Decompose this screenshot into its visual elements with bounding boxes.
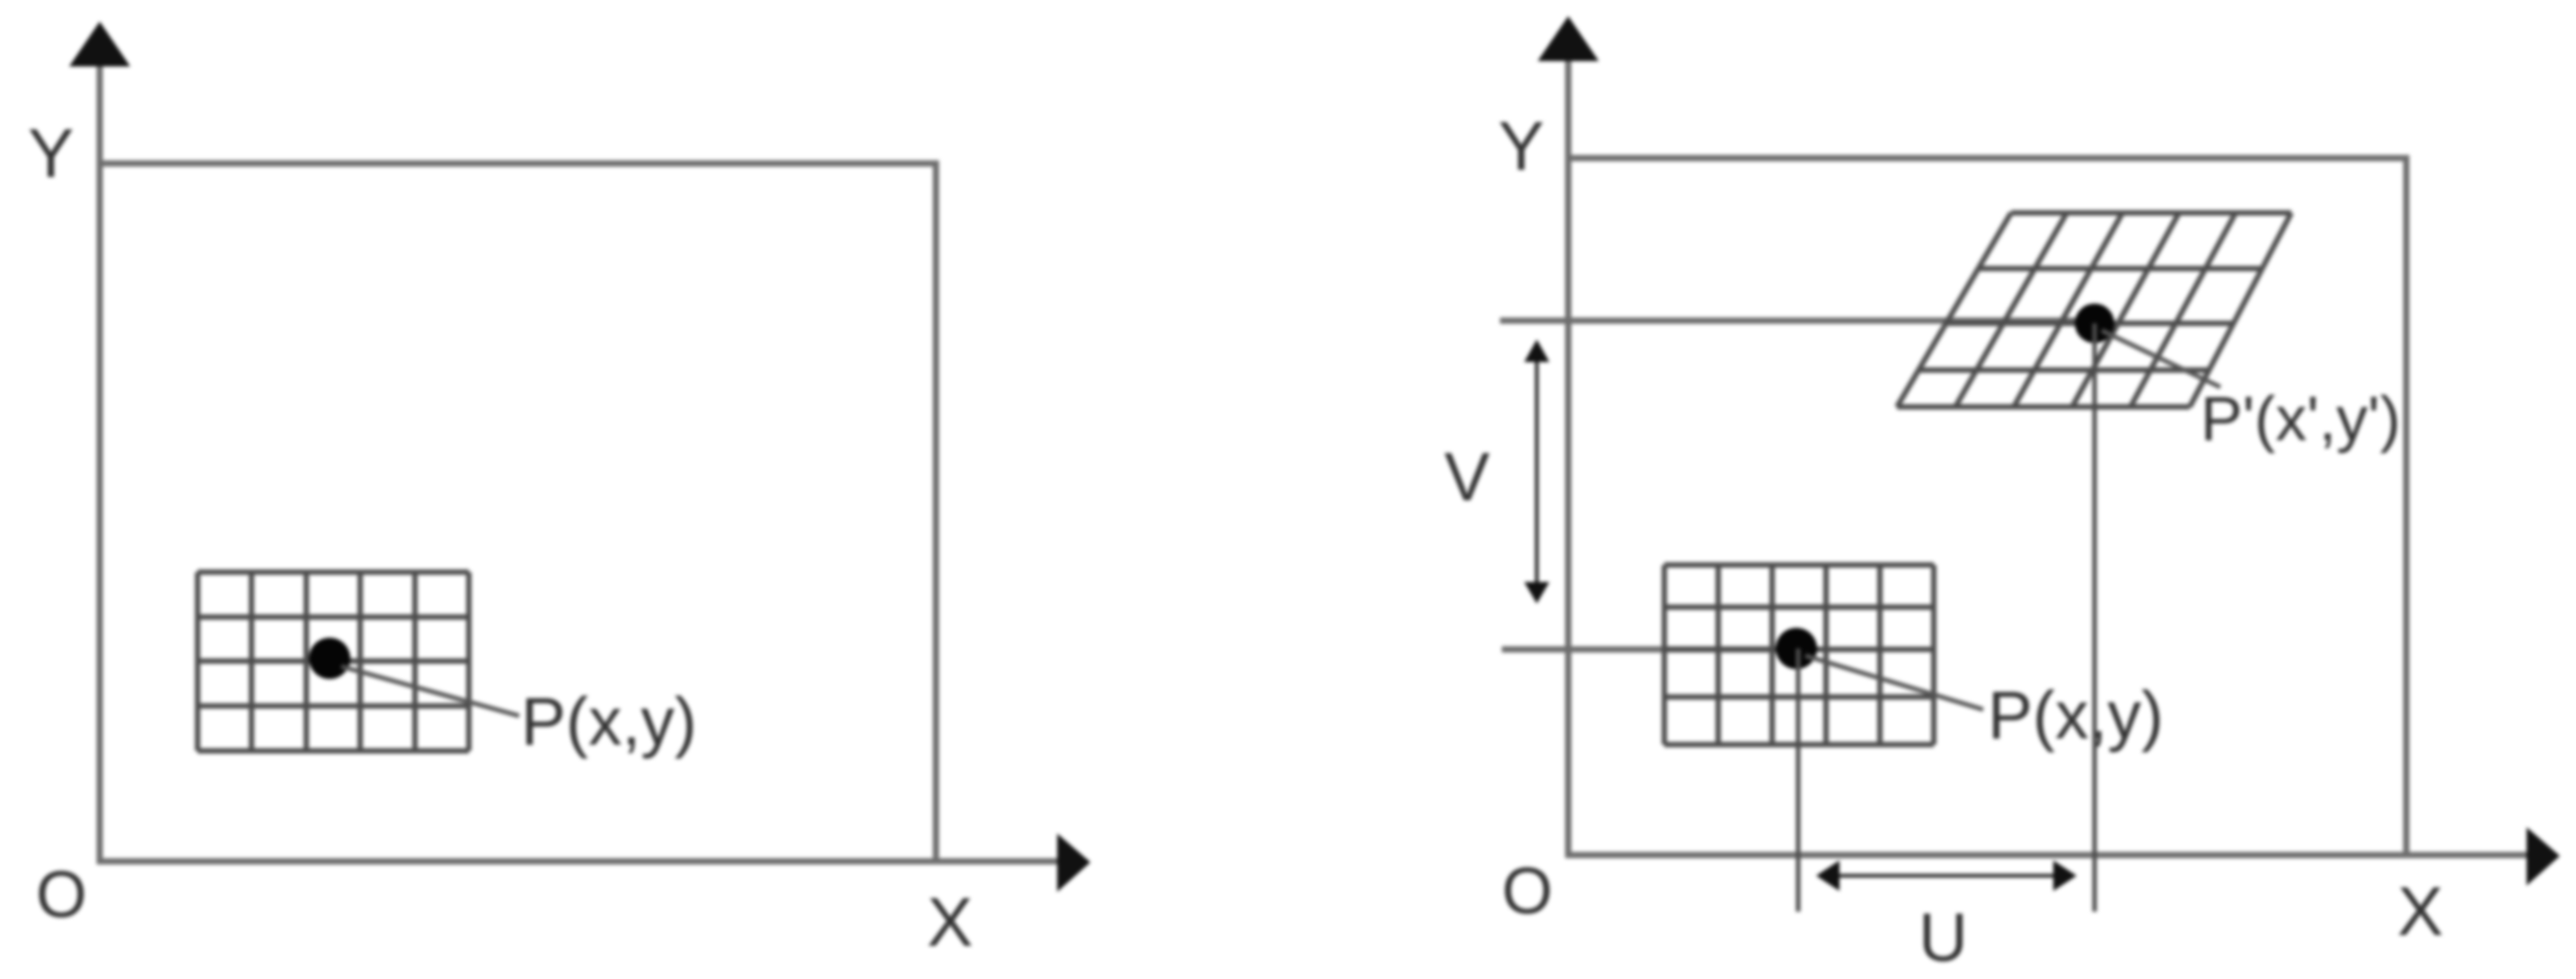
horizontal reference line through P	[1502, 647, 1798, 653]
svg-text:Y: Y	[1498, 108, 1544, 185]
block grid (right, reference)	[1664, 565, 1934, 745]
vertical line from P down past axis	[1796, 648, 1801, 912]
frame rectangle (left)	[100, 163, 936, 861]
leader line to P(x,y) (right)	[1805, 656, 1983, 710]
arrowhead X (left)	[1057, 833, 1090, 892]
V dimension arrow	[1524, 340, 1549, 604]
leader line to P(x,y) (left)	[341, 666, 519, 716]
warped block grid (parallelogram)	[1897, 213, 2291, 407]
frame rectangle (right)	[1568, 158, 2406, 855]
svg-text:O: O	[1502, 855, 1553, 928]
leader line to P'(x',y')	[2102, 331, 2220, 387]
point P' dot	[2075, 304, 2114, 343]
svg-text:P(x,y): P(x,y)	[1988, 677, 2164, 753]
svg-text:P'(x',y'): P'(x',y')	[2201, 384, 2401, 454]
svg-text:O: O	[36, 859, 87, 931]
axis Y (right)	[1566, 54, 1572, 858]
svg-text:V: V	[1444, 439, 1490, 516]
arrowhead Y (left)	[69, 22, 130, 66]
svg-text:Y: Y	[28, 115, 74, 192]
block grid (left)	[198, 572, 469, 751]
axis X (left)	[97, 859, 1060, 865]
point P dot (right)	[1776, 628, 1817, 669]
axis X (right)	[1566, 852, 2529, 859]
horizontal reference line through P'	[1500, 318, 2095, 324]
arrowhead X (right)	[2527, 827, 2560, 886]
axis Y (left)	[97, 59, 103, 864]
U dimension arrow	[1816, 860, 2077, 891]
svg-text:X: X	[2397, 873, 2443, 950]
svg-text:P(x,y): P(x,y)	[521, 684, 697, 759]
point P dot (left)	[309, 638, 350, 679]
svg-text:X: X	[927, 884, 973, 961]
svg-text:U: U	[1919, 900, 1968, 976]
arrowhead Y (right)	[1538, 16, 1599, 61]
vertical line from P' down past axis	[2093, 323, 2097, 912]
